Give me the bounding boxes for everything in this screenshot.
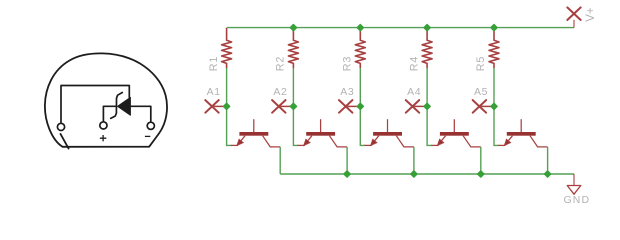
resistor R5 bbox=[489, 28, 499, 68]
package outline (TO-can body) bbox=[45, 53, 167, 146]
junction node A4 bbox=[424, 103, 430, 109]
svg-text:R1: R1 bbox=[208, 56, 220, 71]
ground pin stub bbox=[573, 174, 575, 185]
transistor Q4 bbox=[431, 119, 481, 147]
transistor Q5 bbox=[498, 119, 547, 147]
junction node A3 bbox=[357, 103, 363, 109]
svg-text:V+: V+ bbox=[585, 7, 597, 22]
wire cathode to pin 2 bbox=[103, 106, 116, 121]
wire net A1 (resistor to emitter) bbox=[227, 68, 232, 145]
junction node A5 bbox=[491, 103, 497, 109]
wire net A3 (resistor to emitter) bbox=[360, 68, 365, 145]
resistor R4 bbox=[422, 28, 432, 68]
svg-text:A4: A4 bbox=[407, 86, 421, 98]
junction bottom rail at Q4 bbox=[478, 171, 484, 177]
resistor R3 bbox=[355, 28, 365, 68]
resistor R1 bbox=[222, 28, 232, 68]
junction bottom rail at Q2 bbox=[344, 171, 350, 177]
wire collector Q2 to bottom rail bbox=[346, 147, 348, 174]
power pin V+ X mark bbox=[567, 7, 580, 20]
junction node A1 bbox=[224, 103, 230, 109]
pin A5 unconnected X mark bbox=[473, 100, 486, 113]
junction node A2 bbox=[290, 103, 296, 109]
power pin V+ stub bbox=[573, 20, 575, 28]
terminal pin 2 (+) bbox=[100, 122, 107, 129]
svg-text:R5: R5 bbox=[475, 56, 487, 71]
wire net A2 (resistor to emitter) bbox=[293, 68, 298, 145]
svg-text:A1: A1 bbox=[207, 86, 221, 98]
svg-text:R2: R2 bbox=[275, 56, 287, 71]
junction bottom rail at Q5 bbox=[545, 171, 551, 177]
pin A4 unconnected X mark bbox=[406, 100, 419, 113]
junction top rail at R2 bbox=[290, 25, 296, 31]
transistor Q3 bbox=[365, 119, 414, 147]
svg-text:R3: R3 bbox=[342, 56, 354, 71]
wire net A4 (resistor to emitter) bbox=[427, 68, 432, 145]
pin A2 stub bbox=[280, 105, 293, 107]
pin A1 unconnected X mark bbox=[205, 100, 218, 113]
transistor Q1 bbox=[231, 119, 280, 147]
junction bottom rail at Q3 bbox=[411, 171, 417, 177]
wire collector Q4 to bottom rail bbox=[480, 147, 482, 174]
svg-text:R4: R4 bbox=[408, 56, 420, 71]
zener cathode bar bbox=[111, 93, 123, 119]
index tab mark bbox=[61, 134, 69, 149]
transistor Q2 bbox=[298, 119, 348, 147]
pin A4 stub bbox=[414, 105, 427, 107]
pin A2 unconnected X mark bbox=[272, 100, 285, 113]
wire net A5 (resistor to emitter) bbox=[494, 68, 499, 145]
pin A3 stub bbox=[347, 105, 360, 107]
pin A3 unconnected X mark bbox=[339, 100, 352, 113]
junction top rail at R3 bbox=[357, 25, 363, 31]
wire anode to pin 3 bbox=[131, 106, 151, 122]
svg-text:A2: A2 bbox=[273, 86, 287, 98]
junction top rail at R5 bbox=[491, 25, 497, 31]
terminal pin 1 (case) bbox=[57, 123, 64, 130]
zener diode anode triangle bbox=[118, 97, 131, 115]
wire ground bottom rail bbox=[280, 173, 574, 175]
minus mark bbox=[145, 135, 150, 137]
pin A1 stub bbox=[214, 105, 227, 107]
ground symbol triangle bbox=[567, 186, 581, 195]
wire collector Q1 to bottom rail bbox=[279, 147, 281, 174]
terminal pin 3 (-) bbox=[147, 122, 154, 129]
wire V+ top rail bbox=[227, 27, 574, 29]
svg-text:GND: GND bbox=[564, 194, 591, 206]
svg-text:A3: A3 bbox=[340, 86, 354, 98]
svg-text:A5: A5 bbox=[474, 86, 488, 98]
wire collector Q5 to bottom rail bbox=[547, 147, 549, 174]
pin A5 stub bbox=[481, 105, 494, 107]
wire collector Q3 to bottom rail bbox=[413, 147, 415, 174]
junction top rail at R4 bbox=[424, 25, 430, 31]
resistor R2 bbox=[288, 28, 298, 68]
wire pin1 to anode top bbox=[61, 86, 129, 124]
plus mark bbox=[100, 135, 106, 141]
